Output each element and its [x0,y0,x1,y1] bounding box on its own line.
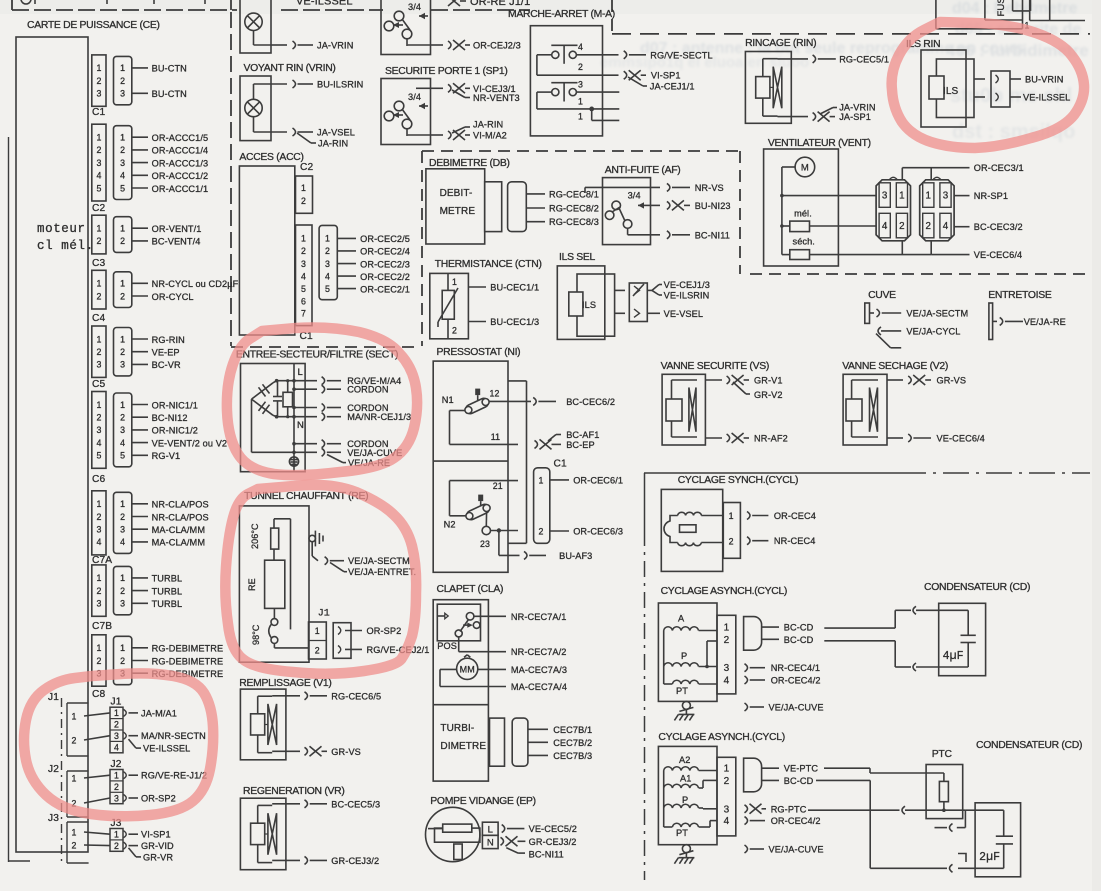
svg-text:OR-CEC6/3: OR-CEC6/3 [573,527,623,537]
svg-text:1: 1 [120,279,125,289]
svg-text:4: 4 [114,742,119,752]
svg-text:OR-CEC2/4: OR-CEC2/4 [360,247,410,257]
svg-text:OR-CEC2/1: OR-CEC2/1 [360,284,410,294]
svg-text:2: 2 [325,246,330,256]
svg-text:VE-VENT/2 ou V2: VE-VENT/2 ou V2 [152,438,228,448]
svg-text:2: 2 [539,526,544,536]
svg-text:A1: A1 [680,774,691,784]
svg-text:RG-DEBIMETRE: RG-DEBIMETRE [152,644,224,654]
svg-text:VE/JA-CYCL: VE/JA-CYCL [906,326,960,336]
svg-text:VE-ILSSEL: VE-ILSSEL [143,744,190,754]
pump POMPE VIDANGE (EP) [426,796,577,862]
svg-text:2: 2 [97,347,102,357]
svg-text:C6: C6 [92,474,105,485]
svg-text:VE/JA-ENTRET.: VE/JA-ENTRET. [348,567,416,577]
resistor PTC [926,749,965,832]
wire RG-CEC8/3 [526,217,599,227]
svg-text:VE-ILSSEL: VE-ILSSEL [1023,93,1070,103]
svg-text:OR-CYCL: OR-CYCL [152,292,194,302]
motor CYCLAGE SYNCH (CYCL) [661,475,816,571]
svg-text:1: 1 [899,191,905,202]
svg-text:C5: C5 [92,379,105,390]
svg-text:POMPE VIDANGE (EP): POMPE VIDANGE (EP) [430,796,535,807]
svg-text:CONDENSATEUR (CD): CONDENSATEUR (CD) [924,582,1030,593]
switch ILS RIN [906,39,1070,127]
svg-text:5: 5 [120,451,125,461]
svg-text:GR-VS: GR-VS [937,376,967,386]
svg-text:1: 1 [114,771,119,781]
svg-text:3: 3 [120,360,125,370]
svg-text:1: 1 [97,643,102,653]
svg-text:C1: C1 [92,107,105,118]
svg-text:CEC7B/3: CEC7B/3 [553,751,592,761]
svg-text:1: 1 [120,133,125,143]
svg-text:REMPLISSAGE (V1): REMPLISSAGE (V1) [239,678,331,689]
svg-text:A: A [678,614,685,624]
svg-text:1: 1 [315,626,320,636]
svg-text:2: 2 [120,76,125,86]
svg-text:PT: PT [676,686,688,696]
svg-text:1: 1 [97,133,102,143]
svg-text:RG/VE-SECTL: RG/VE-SECTL [650,50,712,60]
svg-text:BC-CEC6/2: BC-CEC6/2 [566,397,615,407]
svg-text:2: 2 [301,196,306,206]
svg-text:1: 1 [97,400,102,410]
valve RINCAGE (RIN) [745,38,889,123]
svg-text:4: 4 [120,438,125,448]
svg-text:2: 2 [97,236,102,246]
svg-text:2: 2 [97,586,102,596]
svg-text:DEBIT-: DEBIT- [440,188,473,199]
svg-text:RINCAGE (RIN): RINCAGE (RIN) [745,38,816,49]
svg-text:OR-CEC3/1: OR-CEC3/1 [974,163,1024,173]
wire dashed boundary MA right [611,0,613,33]
svg-text:2: 2 [452,326,457,336]
svg-text:1: 1 [452,277,457,287]
svg-text:1: 1 [724,623,730,634]
svg-text:VE/JA-SECTM: VE/JA-SECTM [348,556,410,566]
svg-text:5: 5 [97,451,102,461]
svg-text:2: 2 [120,291,125,301]
svg-text:2: 2 [72,735,77,745]
svg-text:23: 23 [480,539,490,549]
svg-text:ILS SEL: ILS SEL [559,252,596,263]
svg-text:2: 2 [120,656,125,666]
svg-text:1: 1 [539,475,544,485]
svg-text:2: 2 [120,512,125,522]
label CARTE DE PUISSANCE (CE) [27,20,160,31]
svg-text:4: 4 [882,221,888,232]
svg-text:DEBIMETRE (DB): DEBIMETRE (DB) [429,158,510,169]
svg-text:NR-SP1: NR-SP1 [974,191,1008,201]
svg-text:BU-CTN: BU-CTN [152,64,187,74]
svg-text:2: 2 [97,291,102,301]
svg-text:2: 2 [120,236,125,246]
svg-text:C2: C2 [92,203,105,214]
svg-text:ILS: ILS [943,86,959,97]
svg-text:OR-CEC2/2: OR-CEC2/2 [360,272,410,282]
svg-text:TURBL: TURBL [152,599,183,609]
svg-text:3: 3 [97,89,102,99]
switch securite porte 0 (cut top) [381,0,521,55]
svg-text:OR-CEC4/2: OR-CEC4/2 [771,676,821,686]
connector C7B group [92,565,182,632]
wire dashed boundary DB top [422,150,740,152]
svg-text:2: 2 [114,720,119,730]
svg-text:TURBL: TURBL [152,586,183,596]
connector C3 group [92,215,202,269]
svg-text:OR-NIC1/2: OR-NIC1/2 [152,426,198,436]
svg-text:JA-RIN: JA-RIN [318,139,348,149]
svg-text:2: 2 [724,635,730,646]
svg-text:RG-CEC8/3: RG-CEC8/3 [549,217,599,227]
svg-text:1: 1 [97,334,102,344]
svg-text:CARTE DE PUISSANCE (CE): CARTE DE PUISSANCE (CE) [27,20,160,31]
svg-text:OR-CEC6/1: OR-CEC6/1 [573,475,623,485]
svg-text:1: 1 [724,764,730,775]
svg-text:séch.: séch. [793,237,815,247]
svg-text:5: 5 [301,284,306,294]
svg-text:2: 2 [315,646,320,656]
svg-text:MA-CEC7A/4: MA-CEC7A/4 [511,682,567,692]
wire dashed region boundary top-left [12,0,530,10]
svg-text:mél.: mél. [794,209,812,219]
svg-text:OR-CEC2/5: OR-CEC2/5 [360,234,410,244]
svg-text:VE-PTC: VE-PTC [784,764,819,774]
svg-text:RG-CEC6/5: RG-CEC6/5 [331,691,381,701]
svg-text:CONDENSATEUR (CD): CONDENSATEUR (CD) [976,740,1082,751]
wire BC-CEC3/2 [954,222,1023,232]
svg-text:3: 3 [120,89,125,99]
svg-text:BU-CEC1/1: BU-CEC1/1 [490,283,539,293]
svg-text:2: 2 [729,536,734,546]
svg-text:JA-VRIN: JA-VRIN [839,102,875,112]
svg-text:1: 1 [926,191,932,202]
label SECURITE PORTE 1 (SP1) [385,66,508,77]
switch securite porte 1 [381,79,520,145]
capacitor CONDENSATEUR (CD) 2uF [870,740,1082,877]
svg-text:GR-V1: GR-V1 [754,376,783,386]
connector C2 group [92,124,208,214]
svg-text:OR-CEC4/2: OR-CEC4/2 [771,816,821,826]
svg-text:VE-VSEL: VE-VSEL [664,309,704,319]
wire dashed boundary ACC bottom [231,346,420,348]
svg-text:3: 3 [325,259,330,269]
svg-text:RG/VE-RE-J1/2: RG/VE-RE-J1/2 [141,771,207,781]
svg-text:1: 1 [97,224,102,234]
svg-text:CEC7B/1: CEC7B/1 [553,725,592,735]
svg-text:VENTILATEUR (VENT): VENTILATEUR (VENT) [768,138,871,149]
wire capacitor 4uF leads [824,606,938,671]
wire dashed boundary ILSRIN top [612,33,1090,35]
svg-text:L: L [488,825,493,836]
svg-text:C8: C8 [92,689,105,700]
svg-text:BU-ILSRIN: BU-ILSRIN [317,80,363,90]
wire dashed boundary left column [230,12,232,346]
svg-text:1: 1 [72,827,77,837]
wire page edge lines [9,137,31,862]
svg-text:MA/NR-SECTN: MA/NR-SECTN [141,731,206,741]
svg-text:2: 2 [97,76,102,86]
svg-text:JA-VRIN: JA-VRIN [317,41,353,51]
svg-text:TURBI-: TURBI- [440,723,474,734]
switch ILS SEL [557,252,710,339]
svg-text:RG-V1: RG-V1 [152,451,181,461]
connector C5 group [92,326,185,390]
svg-text:RG-RIN: RG-RIN [152,335,185,345]
svg-text:BU-NI23: BU-NI23 [695,201,731,211]
svg-text:1: 1 [97,499,102,509]
svg-text:OR-ACCC1/4: OR-ACCC1/4 [152,146,209,156]
svg-text:1: 1 [120,224,125,234]
svg-text:CORDON: CORDON [347,385,388,395]
svg-text:RG/VE-CEJ2/1: RG/VE-CEJ2/1 [367,645,430,655]
svg-text:MA/NR-CEJ1/3: MA/NR-CEJ1/3 [347,412,411,422]
svg-text:4: 4 [120,537,125,547]
svg-text:ACCES (ACC): ACCES (ACC) [239,152,303,163]
svg-text:GR-V2: GR-V2 [754,390,783,400]
svg-text:OR-NIC1/1: OR-NIC1/1 [152,400,198,410]
svg-text:P: P [681,651,687,661]
wire PTC leads [808,768,944,868]
svg-text:206°C: 206°C [250,523,260,549]
filter ENTREE-SECTEUR (SECT) [236,350,411,472]
svg-text:12: 12 [490,389,500,399]
svg-text:CYCLAGE ASYNCH.(CYCL): CYCLAGE ASYNCH.(CYCL) [661,586,788,597]
svg-text:RG-PTC: RG-PTC [771,804,807,814]
svg-text:BC-CEC3/2: BC-CEC3/2 [974,222,1023,232]
svg-text:NR-CLA/POS: NR-CLA/POS [152,500,209,510]
valve REGENERATION (VR) [240,786,380,870]
svg-text:OR-VENT/1: OR-VENT/1 [152,224,202,234]
svg-text:CYCLAGE ASYNCH.(CYCL): CYCLAGE ASYNCH.(CYCL) [658,732,785,743]
svg-text:N: N [297,420,304,431]
svg-text:OR-ACCC1/5: OR-ACCC1/5 [152,133,209,143]
svg-text:2: 2 [120,145,125,155]
svg-text:JA-CEJ1/1: JA-CEJ1/1 [650,81,695,91]
svg-text:6: 6 [301,297,306,307]
svg-text:1: 1 [120,499,125,509]
motor VENTILATEUR (VENT) [764,138,932,266]
svg-text:RG-CEC8/2: RG-CEC8/2 [549,204,599,214]
svg-text:JA-VSEL: JA-VSEL [317,128,355,138]
svg-text:2: 2 [926,221,932,232]
svg-text:cl mél.: cl mél. [37,239,94,253]
svg-text:1: 1 [578,112,583,122]
fuse FUS remnant [936,0,1085,31]
svg-text:NR-CEC7A/1: NR-CEC7A/1 [511,612,567,622]
svg-text:1: 1 [97,63,102,73]
svg-text:MARCHE-ARRET (M-A): MARCHE-ARRET (M-A) [508,9,615,20]
svg-text:M: M [801,163,809,174]
svg-text:BC-VR: BC-VR [152,360,181,370]
svg-text:4: 4 [120,171,125,181]
svg-text:BC-AF1: BC-AF1 [566,430,599,440]
svg-text:J3: J3 [48,813,59,824]
svg-text:98°C: 98°C [251,624,261,645]
svg-text:OR-ACCC1/3: OR-ACCC1/3 [152,158,209,168]
svg-text:BC-CD: BC-CD [784,623,814,633]
svg-text:VE/JA-RE: VE/JA-RE [1024,317,1066,327]
svg-text:BU-CEC1/3: BU-CEC1/3 [490,317,539,327]
svg-text:3/4: 3/4 [408,2,421,12]
svg-text:3: 3 [120,599,125,609]
svg-text:2: 2 [97,145,102,155]
svg-text:THERMISTANCE (CTN): THERMISTANCE (CTN) [435,259,542,270]
svg-text:5: 5 [120,183,125,193]
svg-text:2: 2 [97,656,102,666]
connector C1 group [92,55,187,118]
svg-text:MM: MM [460,664,475,674]
svg-text:FUS: FUS [996,0,1007,17]
wire RG-CEC8/1 [526,189,599,199]
svg-text:VE-ILSRIN: VE-ILSRIN [664,290,710,300]
node ENTRETOISE [988,290,1066,340]
svg-text:VE/JA-CUVE: VE/JA-CUVE [769,845,824,855]
svg-text:1: 1 [301,183,306,193]
svg-text:NR-AF2: NR-AF2 [754,434,788,444]
svg-text:5: 5 [325,284,330,294]
svg-text:NR-CEC7A/2: NR-CEC7A/2 [511,647,567,657]
svg-text:21: 21 [493,481,503,491]
meter DEBITMETRE box [426,169,526,244]
svg-text:OR-ACCC1/1: OR-ACCC1/1 [152,184,209,194]
svg-text:1: 1 [72,711,77,721]
svg-text:2: 2 [301,246,306,256]
svg-text:A2: A2 [679,755,690,765]
svg-text:3: 3 [120,158,125,168]
svg-text:JA-RIN: JA-RIN [473,120,503,130]
svg-text:1: 1 [578,97,583,107]
wire VE-CEC6/4 vent [902,241,1022,260]
svg-text:2: 2 [578,62,583,72]
svg-text:2µF: 2µF [979,851,1000,864]
svg-text:NR-CYCL ou CD2µF: NR-CYCL ou CD2µF [152,279,239,289]
svg-text:2: 2 [114,841,119,851]
connector C6 group [92,392,227,486]
svg-text:7: 7 [301,309,306,319]
motor CYCLAGE ASYNCH 2 (CYCL) [658,732,823,864]
svg-text:VI-M/A2: VI-M/A2 [473,131,507,141]
svg-text:VE-CEJ1/3: VE-CEJ1/3 [664,280,710,290]
svg-text:2: 2 [120,586,125,596]
wire dashed boundary DB left [421,151,423,346]
svg-text:RG-CEC8/1: RG-CEC8/1 [549,189,599,199]
svg-text:1: 1 [114,708,119,718]
svg-text:1: 1 [120,334,125,344]
svg-text:C4: C4 [92,313,105,324]
svg-text:OR-ACCC1/2: OR-ACCC1/2 [152,171,209,181]
svg-text:J1: J1 [318,608,330,619]
label DEBIMETRE (DB) [429,158,510,169]
svg-text:J2: J2 [48,764,59,775]
svg-text:3: 3 [882,191,888,202]
svg-text:GR-VS: GR-VS [331,747,361,757]
svg-text:4: 4 [301,271,306,281]
svg-text:NR-CEC4/1: NR-CEC4/1 [771,663,820,673]
svg-text:J1: J1 [111,697,122,708]
svg-text:3: 3 [120,425,125,435]
svg-text:RG-CEC5/1: RG-CEC5/1 [839,54,889,64]
svg-text:3: 3 [97,158,102,168]
svg-text:CYCLAGE SYNCH.(CYCL): CYCLAGE SYNCH.(CYCL) [678,475,798,486]
svg-text:4: 4 [943,221,949,232]
svg-text:4µF: 4µF [943,650,964,663]
capacitor CONDENSATEUR (CD) 4uF [924,582,1030,676]
svg-text:BU-AF3: BU-AF3 [559,551,592,561]
svg-text:2: 2 [899,221,905,232]
svg-text:2: 2 [114,782,119,792]
switch MARCHE-ARRET (M-A) [508,9,713,136]
svg-text:ENTRETOISE: ENTRETOISE [988,290,1052,301]
connector ACC block [239,152,410,342]
svg-text:3: 3 [114,731,119,741]
svg-text:BC-NI11: BC-NI11 [529,849,564,859]
svg-text:ENTREE-SECTEUR/FILTRE (SECT): ENTREE-SECTEUR/FILTRE (SECT) [236,350,398,361]
svg-text:BC-NI11: BC-NI11 [695,230,730,240]
svg-text:1: 1 [97,573,102,583]
svg-text:1: 1 [120,63,125,73]
svg-text:3: 3 [578,80,583,90]
svg-text:2: 2 [97,413,102,423]
svg-text:VE-EP: VE-EP [152,348,180,358]
svg-text:TURBL: TURBL [152,574,183,584]
wire OR-CEC3/1 [902,163,1023,180]
annotation red circle J connectors [24,673,213,816]
svg-text:3/4: 3/4 [408,92,421,102]
svg-text:JA-SP1: JA-SP1 [839,112,871,122]
svg-text:ILS: ILS [582,300,596,310]
sensor CLAPET / TURBIDIMETRE [433,584,592,781]
svg-text:VE-CEC6/4: VE-CEC6/4 [937,434,985,444]
svg-text:1: 1 [114,830,119,840]
node CUVE [865,290,968,348]
wire top remnant boxes [21,0,205,4]
connector VENT terminal block B [920,177,954,241]
svg-text:VE-CEC5/2: VE-CEC5/2 [529,824,577,834]
connector C4 group [92,270,239,324]
svg-text:CUVE: CUVE [868,290,896,301]
svg-text:OR-CEC4: OR-CEC4 [774,511,816,521]
annotation red circle SECT [227,328,417,476]
svg-text:3: 3 [97,599,102,609]
annotation red circle ILS RIN [892,22,1084,148]
svg-text:1: 1 [325,234,330,244]
svg-text:VOYANT RIN (VRIN): VOYANT RIN (VRIN) [244,63,336,74]
svg-text:BC-EP: BC-EP [566,440,595,450]
svg-text:BU-VRIN: BU-VRIN [1025,75,1063,85]
svg-text:BU-CTN: BU-CTN [152,89,187,99]
svg-text:GR-CEJ3/2: GR-CEJ3/2 [529,837,577,847]
svg-text:3/4: 3/4 [628,191,641,201]
svg-text:MA-CLA/MM: MA-CLA/MM [152,525,205,535]
svg-text:moteur: moteur [37,222,86,236]
valve VANNE SECURITE (VS) [661,361,788,445]
svg-text:VANNE SECHAGE (V2): VANNE SECHAGE (V2) [842,361,948,372]
svg-text:C3: C3 [92,258,105,269]
lamp voyant RIN [240,76,363,149]
connector J1 block [48,692,206,756]
label moteur cl mel [37,222,94,253]
svg-text:3: 3 [724,804,730,815]
svg-text:VE/JA-CUVE: VE/JA-CUVE [769,703,824,713]
svg-text:OR-RE J1/1: OR-RE J1/1 [470,0,530,8]
svg-text:1: 1 [97,279,102,289]
svg-text:3: 3 [724,663,730,674]
svg-text:RG-DEBIMETRE: RG-DEBIMETRE [152,656,224,666]
svg-text:4: 4 [724,676,730,687]
svg-text:3: 3 [97,425,102,435]
